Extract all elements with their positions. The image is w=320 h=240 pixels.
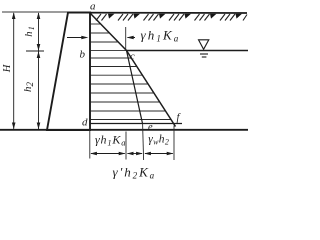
ground surface line xyxy=(68,12,247,14)
extension below e xyxy=(143,124,144,160)
svg-text:d: d xyxy=(82,116,88,128)
dimension gamma' h2 Ka (c' to e) xyxy=(127,152,143,156)
line c-e xyxy=(127,51,143,124)
diagonal a-c xyxy=(90,13,127,51)
water level tick xyxy=(26,50,44,52)
gamma h1 Ka top arrow xyxy=(127,36,135,40)
diagonal c-f xyxy=(127,51,176,127)
dimension gamma_w h2 (e to f) xyxy=(144,152,173,156)
ground hatching xyxy=(96,14,247,21)
svg-text:a: a xyxy=(90,1,96,13)
extension below d xyxy=(89,126,91,159)
svg-text:γ′h2Ka: γ′h2Ka xyxy=(113,165,157,181)
retaining wall xyxy=(47,13,90,131)
water table symbol xyxy=(199,40,209,57)
extension line above c xyxy=(125,27,127,50)
svg-text:γh1Ka: γh1Ka xyxy=(95,133,126,148)
svg-text:γh1Ka: γh1Ka xyxy=(141,28,181,44)
svg-text:f: f xyxy=(177,113,182,124)
arrow at wall face xyxy=(67,36,88,40)
pressure baseline d-e-f xyxy=(90,123,183,125)
top reference line xyxy=(2,11,68,13)
dimension gamma h1 Ka (d to c') xyxy=(90,152,125,156)
svg-text:h1: h1 xyxy=(24,26,36,37)
svg-text:H: H xyxy=(2,63,13,73)
extension below f xyxy=(173,126,175,161)
H dimension line xyxy=(12,12,16,129)
h2 dimension line xyxy=(37,51,41,129)
svg-text:c: c xyxy=(130,52,135,63)
water line xyxy=(127,50,249,52)
extension below c xyxy=(125,132,127,160)
bottom ground line xyxy=(0,129,248,131)
svg-text:b: b xyxy=(80,49,86,61)
svg-text:e: e xyxy=(148,122,153,133)
svg-text:h2: h2 xyxy=(22,82,35,93)
svg-text:γwh2: γwh2 xyxy=(148,134,169,147)
pressure diagram hatch lines xyxy=(91,24,171,120)
h1 dimension line xyxy=(37,12,41,50)
